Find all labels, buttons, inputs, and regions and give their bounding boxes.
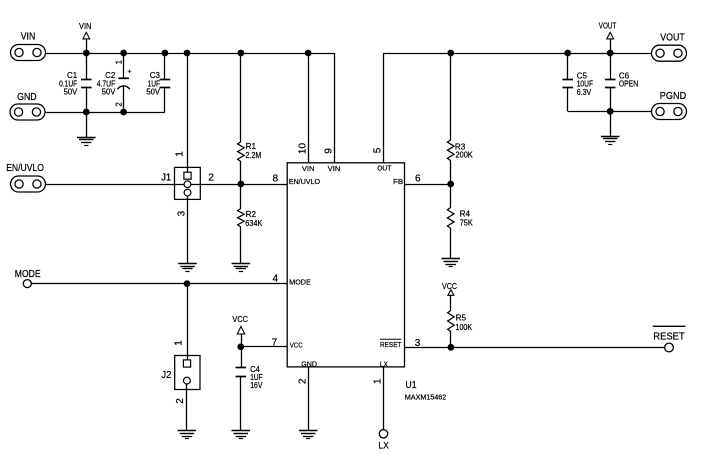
svg-text:8: 8 — [272, 174, 278, 185]
svg-text:EN/UVLO: EN/UVLO — [6, 163, 44, 174]
svg-text:10: 10 — [298, 143, 309, 155]
svg-text:6.3V: 6.3V — [577, 88, 592, 97]
svg-text:VIN: VIN — [302, 164, 315, 173]
svg-text:RESET: RESET — [653, 332, 684, 343]
svg-text:7: 7 — [272, 337, 278, 348]
svg-text:OUT: OUT — [377, 164, 392, 173]
svg-text:50V: 50V — [146, 88, 160, 97]
svg-text:VCC: VCC — [442, 281, 457, 291]
svg-text:5: 5 — [373, 147, 384, 153]
svg-text:VIN: VIN — [79, 21, 92, 31]
svg-text:1: 1 — [175, 151, 186, 157]
svg-text:OPEN: OPEN — [619, 80, 638, 89]
svg-text:50V: 50V — [64, 88, 78, 97]
svg-text:200K: 200K — [456, 151, 474, 160]
svg-text:U1: U1 — [406, 380, 417, 391]
svg-text:GND: GND — [17, 92, 37, 103]
svg-text:J1: J1 — [161, 173, 171, 184]
svg-text:VIN: VIN — [328, 164, 341, 173]
svg-text:2: 2 — [298, 378, 309, 384]
svg-text:1: 1 — [173, 340, 184, 346]
svg-text:2: 2 — [115, 102, 124, 107]
svg-text:VCC: VCC — [290, 341, 303, 350]
svg-text:EN/UVLO: EN/UVLO — [289, 177, 321, 186]
svg-text:VCC: VCC — [232, 314, 248, 324]
svg-text:R2: R2 — [246, 210, 257, 219]
svg-text:MODE: MODE — [15, 269, 41, 280]
svg-text:2: 2 — [208, 173, 214, 184]
svg-text:PGND: PGND — [660, 91, 686, 102]
svg-text:1: 1 — [373, 378, 384, 384]
svg-text:FB: FB — [393, 177, 403, 186]
svg-text:100K: 100K — [456, 323, 473, 332]
svg-text:MAXM15462: MAXM15462 — [405, 394, 447, 401]
svg-text:VOUT: VOUT — [599, 20, 617, 30]
svg-text:+: + — [127, 69, 131, 76]
svg-text:634K: 634K — [245, 219, 263, 228]
svg-text:2: 2 — [175, 398, 186, 404]
svg-text:3: 3 — [415, 338, 421, 349]
svg-text:R5: R5 — [456, 314, 467, 323]
svg-text:16V: 16V — [250, 381, 263, 390]
svg-text:1: 1 — [115, 59, 124, 64]
svg-text:LX: LX — [378, 441, 389, 452]
svg-text:RESET: RESET — [380, 340, 402, 349]
svg-text:VIN: VIN — [21, 31, 36, 42]
svg-text:3: 3 — [176, 210, 187, 216]
svg-text:R4: R4 — [460, 209, 471, 218]
svg-text:9: 9 — [324, 148, 335, 154]
svg-text:VOUT: VOUT — [660, 33, 684, 44]
svg-text:2.2M: 2.2M — [245, 151, 261, 160]
svg-text:GND: GND — [301, 360, 317, 369]
svg-text:J2: J2 — [161, 370, 171, 381]
svg-text:MODE: MODE — [289, 277, 310, 286]
svg-text:4: 4 — [272, 273, 278, 284]
svg-text:6: 6 — [415, 174, 421, 185]
svg-text:R1: R1 — [246, 142, 257, 151]
svg-text:50V: 50V — [102, 88, 116, 97]
svg-text:75K: 75K — [460, 218, 474, 227]
